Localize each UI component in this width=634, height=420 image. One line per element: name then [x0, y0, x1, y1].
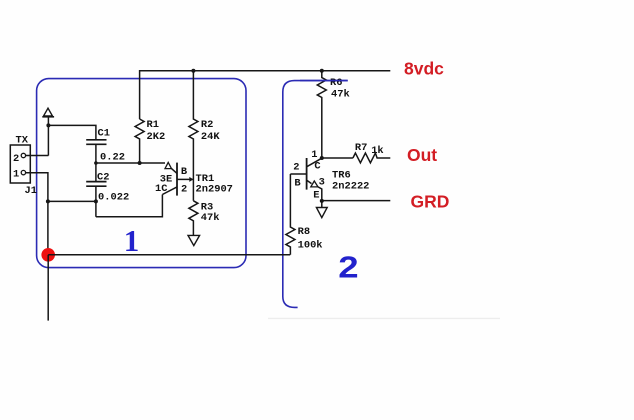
svg-text:24K: 24K — [201, 131, 220, 143]
region box 2 top edge over R6 label — [300, 80, 348, 82]
wire GRD rail — [322, 200, 391, 202]
svg-text:1: 1 — [13, 168, 19, 180]
resistor R8 100k — [286, 174, 323, 255]
wire C1 bottom to node — [95, 144, 97, 163]
connector J1 TX — [10, 134, 37, 197]
svg-text:0.022: 0.022 — [98, 191, 129, 203]
svg-text:Out: Out — [407, 145, 437, 165]
wire pin2 — [26, 155, 49, 157]
svg-text:R2: R2 — [201, 119, 213, 131]
node pin1/C2 wire junction — [46, 199, 50, 203]
svg-text:E: E — [313, 190, 319, 202]
svg-text:TX: TX — [16, 134, 29, 146]
svg-text:2K2: 2K2 — [147, 131, 166, 143]
node emitter/GRD — [320, 199, 324, 203]
svg-text:R8: R8 — [298, 226, 310, 238]
wire bottom stub down — [47, 255, 49, 321]
wire 8vdc top rail — [140, 71, 391, 119]
wire to C1 top — [48, 125, 96, 139]
faint divider line — [268, 317, 500, 319]
svg-text:0.22: 0.22 — [100, 152, 125, 164]
svg-text:J1: J1 — [25, 185, 37, 197]
svg-text:1k: 1k — [371, 145, 383, 157]
resistor R3 47k — [189, 201, 220, 236]
wire C2 bottom net — [48, 200, 96, 202]
svg-text:2: 2 — [181, 184, 187, 196]
wire bottom rail to R8 — [48, 254, 290, 256]
svg-text:GRD: GRD — [411, 192, 450, 212]
capacitor C1 — [86, 128, 125, 164]
svg-text:1: 1 — [124, 223, 140, 258]
capacitor C2 — [86, 163, 129, 203]
svg-text:B: B — [181, 166, 188, 178]
ground TR1 — [188, 235, 200, 245]
svg-text:R7: R7 — [355, 142, 367, 154]
svg-text:C: C — [314, 160, 320, 172]
region box 1 — [37, 79, 246, 268]
wire pin1 down to C2 net — [26, 173, 48, 255]
svg-text:47k: 47k — [331, 88, 350, 100]
wire emitter net — [96, 162, 165, 164]
resistor R6 47k — [317, 71, 349, 158]
wire collector bottom run — [96, 195, 162, 217]
red node dot — [41, 248, 55, 262]
node R1 bottom — [138, 161, 142, 165]
svg-text:2n2907: 2n2907 — [196, 184, 233, 196]
wire C2 bottom down — [95, 186, 97, 217]
node C1/0.22 — [94, 161, 98, 165]
svg-text:2n2222: 2n2222 — [332, 180, 369, 192]
svg-text:C1: C1 — [98, 128, 110, 140]
node rail/R6 — [320, 69, 324, 73]
node rail/R2 — [191, 69, 195, 73]
node power/C1 junction — [46, 123, 50, 127]
region box 2 — [283, 81, 348, 308]
ground TR6 — [316, 201, 327, 218]
svg-text:R1: R1 — [147, 119, 159, 131]
svg-text:2: 2 — [13, 153, 19, 165]
power flag — [42, 108, 54, 155]
node collector R6/R7 — [320, 156, 324, 160]
svg-text:8vdc: 8vdc — [404, 58, 444, 78]
resistor R7 1k — [322, 142, 391, 163]
svg-text:1C: 1C — [155, 183, 167, 195]
node C2/pin1 net — [94, 199, 98, 203]
svg-text:3: 3 — [319, 177, 325, 189]
svg-text:B: B — [294, 177, 301, 189]
svg-text:R6: R6 — [330, 77, 342, 89]
transistor TR6 2n2222 — [290, 149, 369, 201]
svg-text:100k: 100k — [298, 240, 323, 252]
svg-text:47k: 47k — [201, 212, 220, 224]
resistor R1 2K2 — [135, 119, 165, 163]
resistor R2 24K — [189, 71, 220, 201]
svg-text:2: 2 — [293, 161, 299, 173]
transistor TR1 2n2907 — [155, 162, 233, 195]
svg-text:1: 1 — [311, 149, 317, 161]
svg-text:2: 2 — [338, 250, 358, 285]
